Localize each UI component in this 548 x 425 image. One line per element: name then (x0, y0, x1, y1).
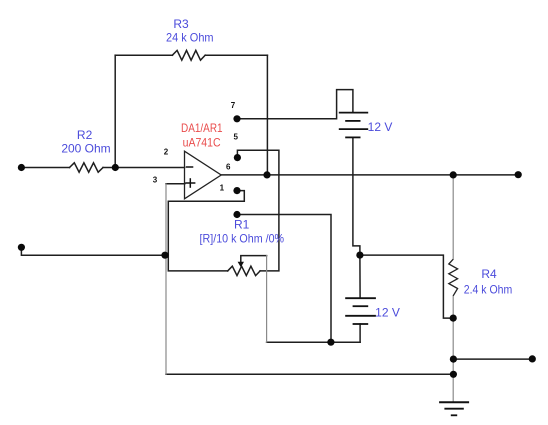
svg-text:[R]/10 k Ohm /0%: [R]/10 k Ohm /0% (200, 231, 285, 245)
svg-text:2.4 k Ohm: 2.4 k Ohm (464, 282, 513, 296)
svg-text:24 k Ohm: 24 k Ohm (166, 31, 214, 45)
svg-text:5: 5 (233, 133, 238, 142)
svg-text:6: 6 (226, 163, 231, 172)
svg-text:DA1/AR1: DA1/AR1 (181, 121, 223, 135)
svg-text:R1: R1 (234, 217, 250, 231)
svg-text:200 Ohm: 200 Ohm (61, 141, 110, 155)
svg-text:7: 7 (231, 101, 236, 110)
svg-text:3: 3 (153, 176, 158, 185)
svg-text:R3: R3 (173, 17, 189, 31)
svg-text:1: 1 (220, 184, 225, 193)
svg-text:R2: R2 (77, 128, 93, 142)
svg-text:uA741C: uA741C (183, 136, 221, 150)
svg-text:2: 2 (164, 148, 169, 157)
svg-text:12 V: 12 V (368, 120, 393, 134)
svg-text:R4: R4 (481, 267, 497, 281)
svg-text:12 V: 12 V (375, 306, 400, 320)
